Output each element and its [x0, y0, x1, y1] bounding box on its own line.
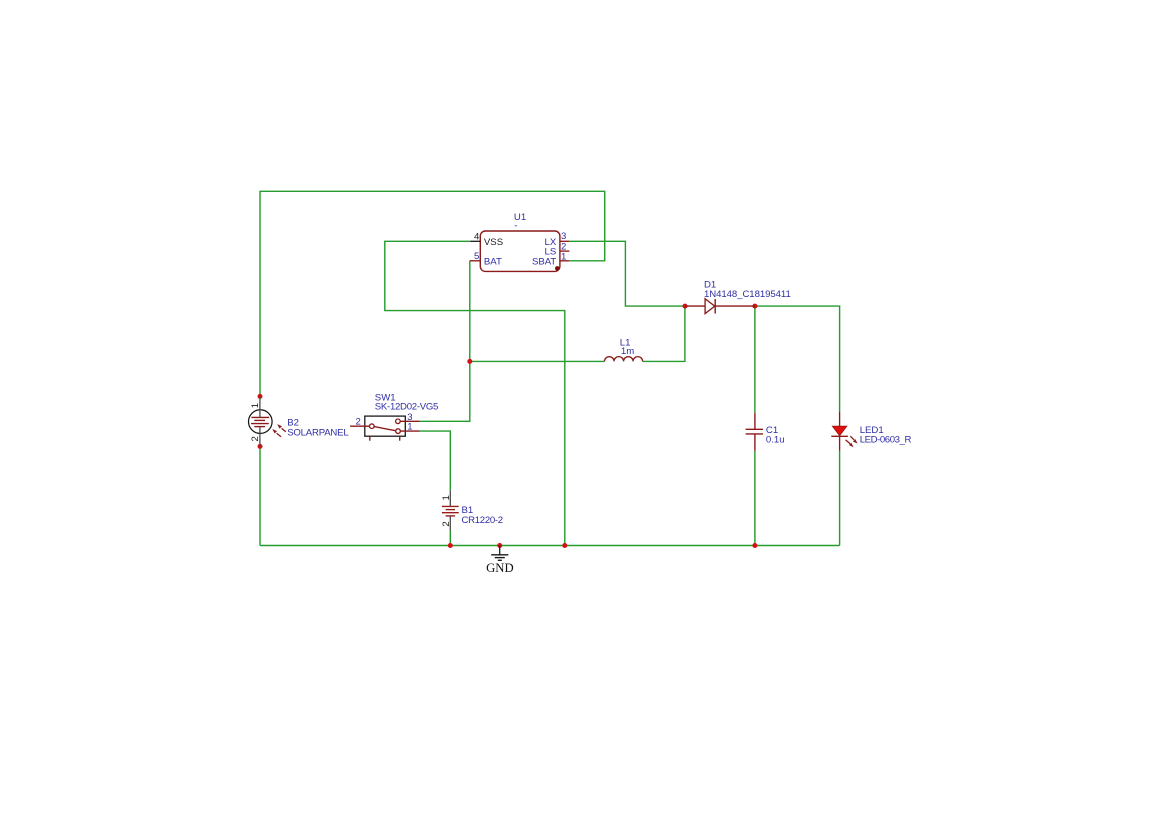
LED1 cathode bar — [831, 435, 848, 437]
junction node at B2 pin 1 — [258, 394, 263, 399]
svg-text:4: 4 — [474, 232, 480, 243]
wire B1 pin2 to bottom bus — [449, 531, 451, 546]
junction node VSS on bus — [562, 543, 567, 548]
B1 pin 1 lead — [449, 491, 451, 507]
B2 light arrow upper — [272, 424, 286, 437]
ground bar 1 — [491, 554, 508, 556]
junction node D1 anode — [683, 304, 688, 309]
SW1 contact circle pin2 — [370, 424, 375, 429]
B2 plate long top — [251, 416, 269, 418]
svg-text:SBAT: SBAT — [532, 256, 556, 267]
junction node C1 on bus — [752, 543, 757, 548]
SW1 pin 1 lead — [400, 430, 420, 432]
wire right riser (bus to LED1 bottom) — [839, 451, 841, 546]
capacitor C1 bottom plate — [746, 433, 763, 435]
ground bar 2 — [495, 557, 505, 559]
wire left vertical lower (B2 pin2 to bottom bus) — [259, 446, 261, 545]
diode D1 lead right — [715, 305, 755, 307]
wire bottom bus — [260, 545, 840, 547]
LED1 triangle — [833, 426, 847, 435]
junction node D1 cathode / C1 / LED — [752, 304, 757, 309]
B2 pin 2 lead — [259, 427, 261, 447]
wire C1 top (D1 output node down to C1) — [754, 306, 756, 413]
wire LED1 top to D1 output node — [755, 306, 840, 411]
op-amp U1 body — [480, 231, 560, 271]
B1 pin 2 lead — [449, 516, 451, 531]
battery B2 circle — [248, 410, 272, 434]
wire BAT net vertical (U1 pin5 down to SW1 pin3) — [420, 261, 470, 422]
wire left vertical upper (top rail to B2 pin1) — [259, 191, 261, 397]
U1 pin 4 line — [470, 240, 480, 242]
svg-text:BAT: BAT — [484, 256, 502, 267]
svg-text:5: 5 — [474, 251, 479, 262]
SW1 contact circle pin3 — [396, 419, 401, 424]
svg-text:0.1u: 0.1u — [766, 434, 785, 445]
LED1 bottom lead — [839, 436, 841, 450]
svg-text:1: 1 — [250, 403, 261, 408]
SW1 mount stub right — [399, 436, 401, 441]
diode D1 triangle — [705, 299, 715, 314]
svg-text:SK-12D02-VG5: SK-12D02-VG5 — [375, 402, 438, 413]
wire SBAT net (top rail down to U1 pin1) — [569, 191, 604, 261]
LED1 top lead — [839, 411, 841, 426]
svg-text:2: 2 — [356, 417, 361, 428]
svg-text:VSS: VSS — [484, 237, 503, 248]
B1 plate long 2 — [442, 512, 459, 514]
B2 light arrow lower — [277, 433, 281, 437]
svg-text:-: - — [514, 221, 517, 232]
capacitor C1 top plate — [746, 428, 763, 430]
junction node BAT/L1 — [467, 359, 472, 364]
svg-text:SOLARPANEL: SOLARPANEL — [287, 427, 349, 438]
svg-text:1: 1 — [407, 422, 412, 433]
battery B1 plate long 1 — [442, 505, 459, 507]
svg-text:1: 1 — [561, 252, 566, 263]
wire LX net (U1 pin3 to D1 anode node) — [569, 241, 685, 306]
svg-text:GND: GND — [486, 561, 514, 575]
wire SW1 pin1 to B1 pin1 — [420, 431, 451, 491]
ground bar 3 — [498, 559, 502, 561]
U1 pin 1 line — [560, 260, 570, 262]
inductor L1 coil — [605, 357, 643, 362]
wire VSS net (U1 pin4 to bottom bus) — [385, 241, 565, 545]
switch SW1 body — [365, 416, 406, 436]
SW1 mount stub left — [369, 436, 371, 441]
B2 plate long — [251, 423, 269, 425]
wire top horizontal — [260, 190, 605, 192]
junction node B1 on bus — [448, 543, 453, 548]
svg-text:2: 2 — [250, 436, 261, 441]
B1 plate short 2 — [446, 515, 455, 517]
junction node GND on bus — [497, 543, 502, 548]
svg-text:LED-0603_R: LED-0603_R — [860, 435, 912, 446]
B2 pin 1 lead — [259, 396, 261, 417]
LED1 emission arrow upper — [846, 436, 858, 447]
U1 pin 2 line — [560, 250, 570, 252]
SW1 pin 3 lead — [400, 420, 420, 422]
B1 plate short 1 — [446, 509, 455, 511]
capacitor C1 bottom lead — [754, 434, 756, 451]
svg-text:1m: 1m — [621, 346, 634, 357]
B2 plate short — [254, 419, 265, 421]
U1 pin 5 line — [470, 260, 481, 262]
diode D1 lead left — [685, 305, 705, 307]
diode D1 cathode bar — [714, 299, 716, 314]
B2 plate short bottom — [254, 426, 265, 428]
U1 pin 3 line — [560, 240, 570, 242]
ground symbol stem — [499, 546, 501, 555]
svg-text:2: 2 — [441, 521, 452, 526]
SW1 actuator bar — [374, 427, 396, 431]
wire L1 right (coil up to D1 anode node) — [643, 306, 685, 361]
SW1 pin 2 lead — [350, 425, 369, 427]
wire C1 bottom to bus — [754, 451, 756, 546]
junction node at B2 pin 2 — [258, 444, 263, 449]
svg-text:1N4148_C18195411: 1N4148_C18195411 — [704, 289, 791, 300]
wire L1 left (node to coil) — [470, 360, 605, 362]
U1 polarity dot — [555, 266, 560, 271]
svg-text:CR1220-2: CR1220-2 — [462, 515, 503, 526]
svg-text:1: 1 — [441, 495, 452, 500]
capacitor C1 top lead — [754, 413, 756, 429]
LED1 emission arrow lower — [846, 440, 851, 444]
SW1 contact circle pin1 — [396, 429, 401, 434]
